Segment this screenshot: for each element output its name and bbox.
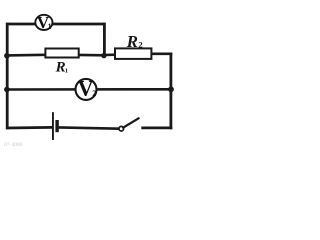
svg-text:2: 2 [138,40,142,50]
wire: bottom left to battery [6,126,52,129]
battery long plate (+) [52,112,54,140]
wire: battery to switch pivot [59,127,120,128]
wire: middle vertical (V1 right lead down to R1-R2 node) [103,23,106,56]
resistor R1 [45,49,78,58]
wire: resistor row, node A to R2 [104,53,117,56]
svg-text:07·4006: 07·4006 [4,142,23,148]
node A dot: R1-R2 junction [101,53,106,58]
wire: resistor row, R1 to node A [78,54,106,57]
svg-text:1: 1 [48,22,52,31]
wire: top horizontal (battery+ loop top) [6,23,106,26]
wire: V2 row horizontal [6,88,172,91]
wire: left vertical rail [6,23,9,130]
wire: resistor row, left stub to R1 [6,53,47,56]
resistor R2 [115,48,151,59]
voltmeter U2 (V2) circle [76,79,97,100]
voltmeter U1 (V1) circle [35,15,52,30]
wire: switch fixed contact stub to bottom right corner [141,127,172,130]
svg-text:1: 1 [65,67,68,74]
switch arm (open) [123,118,138,127]
switch pivot circle [119,126,124,131]
node dot: right V2-row junction [168,86,174,92]
node dot: left R-row junction [4,53,10,59]
node dot: left V2-row junction [4,87,10,93]
wire: right vertical rail [169,53,172,130]
battery short thick plate (-) [55,120,58,132]
svg-text:R: R [126,32,138,51]
svg-text:V: V [78,75,94,100]
svg-text:2: 2 [92,89,96,98]
wire: R2 to right rail [151,52,173,55]
